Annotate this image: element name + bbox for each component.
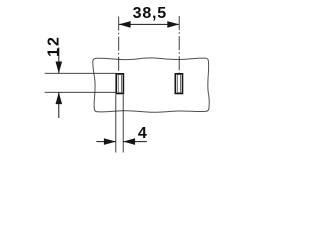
dimension line 38,5	[119, 23, 180, 25]
dim 4 line right	[123, 141, 147, 143]
dim 12 extension line bottom	[45, 91, 117, 93]
centerline left slot (dash-dot)	[118, 17, 120, 74]
dim 12 arrow down	[56, 62, 63, 74]
dim 12 vertical line upper	[58, 48, 60, 74]
right slot outer	[175, 74, 182, 94]
svg-text:4: 4	[138, 125, 147, 142]
dim 4 arrow left-pointing	[123, 138, 135, 145]
svg-text:12: 12	[45, 35, 62, 57]
dim 12 vertical line lower	[58, 92, 60, 118]
dim 4 extension line right	[122, 95, 124, 153]
arrowhead left (points left)	[119, 21, 131, 28]
dim 4 line left	[96, 141, 115, 143]
svg-text:38,5: 38,5	[133, 5, 167, 22]
arrowhead right (points right)	[167, 21, 179, 28]
dim 12 arrow up	[56, 92, 63, 104]
right slot inner	[177, 75, 180, 93]
dim 4 extension line left	[115, 95, 117, 153]
connector body outline (broken-view housing)	[93, 58, 209, 112]
left slot inner	[118, 75, 121, 93]
left slot outer	[116, 74, 123, 94]
dim 4 arrow right-pointing	[104, 138, 116, 145]
centerline right slot (dash-dot)	[178, 16, 180, 73]
dim 12 extension line top	[45, 72, 117, 74]
